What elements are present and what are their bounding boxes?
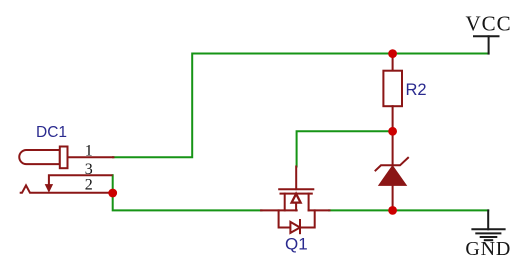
svg-text:Q1: Q1 (285, 235, 308, 254)
svg-text:2: 2 (85, 177, 93, 194)
svg-text:VCC: VCC (466, 12, 512, 36)
svg-text:GND: GND (465, 238, 511, 260)
svg-text:R2: R2 (406, 81, 427, 99)
svg-text:1: 1 (85, 142, 93, 159)
svg-text:DC1: DC1 (36, 124, 67, 141)
